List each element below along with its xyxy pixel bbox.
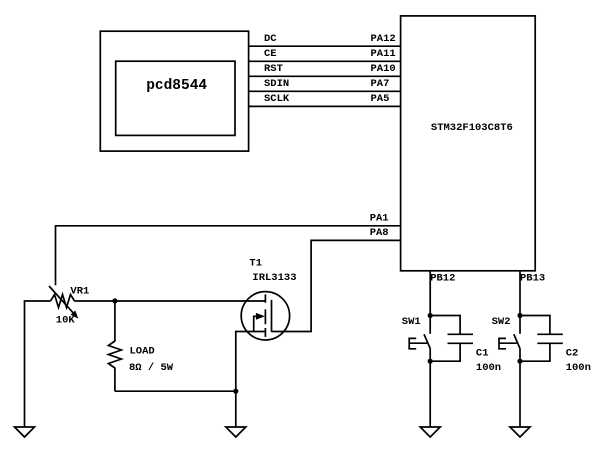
svg-text:STM32F103C8T6: STM32F103C8T6 [431,122,513,134]
wire net SDIN [249,90,401,92]
wire PA1 to potentiometer wiper [56,226,401,285]
junction node load/drain [112,298,117,303]
transistor T1 body arrow [254,316,258,331]
svg-text:PA1: PA1 [370,212,389,224]
wire PB13 [519,271,521,316]
wire SW2 bottom to ground [519,361,521,427]
potentiometer VR1 zigzag [51,295,75,308]
svg-text:PA7: PA7 [371,78,390,90]
svg-text:pcd8544: pcd8544 [146,78,207,94]
svg-text:100n: 100n [566,362,591,374]
switch SW2 actuator rod [499,342,517,344]
junction node source/load [233,389,238,394]
resistor LOAD with leads [108,301,121,391]
capacitor C2 bottom lead [520,343,550,361]
svg-text:PB13: PB13 [520,272,545,284]
svg-text:LOAD: LOAD [130,346,155,358]
wire VR1 right terminal to transistor drain [75,300,265,302]
transistor T1 gate bar [271,300,273,332]
svg-text:8Ω / 5W: 8Ω / 5W [129,362,174,374]
junction node SW2 top [517,313,522,318]
junction node SW1 bottom [428,359,433,364]
wire net CE [249,60,401,62]
junction node SW2 bottom [517,359,522,364]
switch SW2 top contact [519,316,521,334]
LCD module screen inner box [116,61,235,135]
transistor T1 channel dash source [264,328,266,337]
svg-text:SCLK: SCLK [264,93,290,105]
junction node SW1 top [428,313,433,318]
switch SW1 bottom contact [429,349,431,362]
capacitor C1 top lead [430,316,460,335]
svg-text:T1: T1 [249,257,262,269]
svg-text:IRL3133: IRL3133 [252,272,296,284]
switch SW1 actuator bracket [409,338,416,348]
transistor T1 source lead to ground [236,332,266,428]
switch SW1 top contact [429,316,431,334]
svg-text:SDIN: SDIN [264,78,289,90]
svg-text:C1: C1 [476,348,489,360]
svg-text:PA11: PA11 [371,48,396,60]
MCU U1 box STM32F103C8T6 [401,16,536,271]
wire PB12 [429,271,431,316]
wire VR1 left terminal to ground [25,301,51,427]
ground symbol at SW1 [420,427,440,437]
switch SW2 actuator bracket [499,338,506,348]
wire SW1 bottom to ground [429,361,431,427]
wire net DC [249,45,401,47]
svg-text:CE: CE [264,48,277,60]
capacitor C2 top lead [520,316,550,335]
ground symbol at SW2 [510,427,530,437]
ground symbol at VR1 [15,427,35,437]
switch SW2 blade [514,334,520,348]
svg-text:PA10: PA10 [371,63,396,75]
wire PA8 to transistor gate [272,240,401,331]
capacitor C2 bottom plate [537,342,563,344]
svg-text:PB12: PB12 [430,272,455,284]
transistor T1 channel dash body [264,309,266,324]
wire net SCLK [249,105,401,107]
switch SW1 actuator rod [409,342,427,344]
svg-text:C2: C2 [566,348,579,360]
capacitor C1 top plate [448,333,474,335]
wire LOAD bottom to source node [115,390,236,392]
svg-text:RST: RST [264,63,283,75]
transistor T1 body circle [241,292,289,340]
switch SW1 blade [424,334,430,348]
svg-text:SW1: SW1 [402,316,421,328]
svg-text:PA8: PA8 [370,227,389,239]
capacitor C1 bottom lead [430,343,460,361]
svg-text:PA12: PA12 [371,33,396,45]
svg-text:VR1: VR1 [70,286,89,298]
svg-text:PA5: PA5 [371,93,390,105]
svg-text:DC: DC [264,33,277,45]
svg-text:10K: 10K [56,315,76,327]
transistor T1 channel dash drain [264,294,266,302]
LCD module outer box (pcd8544) [100,31,248,151]
switch SW2 bottom contact [519,349,521,362]
ground symbol at T1 source [226,427,246,437]
wire net RST [249,75,401,77]
capacitor C1 bottom plate [448,342,474,344]
potentiometer VR1 wiper arrow [49,286,73,313]
svg-text:100n: 100n [476,362,501,374]
svg-text:SW2: SW2 [492,316,511,328]
capacitor C2 top plate [537,333,563,335]
